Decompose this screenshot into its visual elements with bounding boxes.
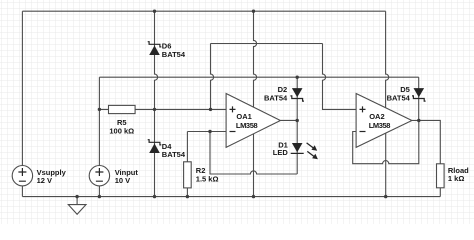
junction D4 anode on bottom rail xyxy=(153,195,156,198)
wire output to Rload xyxy=(419,120,441,163)
resistor R2 1.5k xyxy=(184,162,192,188)
svg-text:LM358: LM358 xyxy=(369,121,391,130)
resistor R5 100k xyxy=(109,105,136,113)
voltage source Vsupply xyxy=(12,166,32,186)
wire D4 column to bottom rail xyxy=(154,109,156,196)
junction Vinput negative on bottom rail xyxy=(98,195,101,198)
wire OA1 V+ supply drop (hops link and bus) xyxy=(254,11,257,107)
svg-text:R2: R2 xyxy=(196,166,206,175)
junction R2 bottom on bottom rail xyxy=(186,195,189,198)
svg-text:BAT54: BAT54 xyxy=(387,93,411,102)
svg-text:OA2: OA2 xyxy=(369,112,384,121)
svg-text:BAT54: BAT54 xyxy=(264,93,288,102)
wire R2 column to bottom rail xyxy=(186,132,188,197)
svg-text:LM358: LM358 xyxy=(236,121,258,130)
op-amp OA2 (LM358) xyxy=(356,94,412,148)
ground symbol xyxy=(68,205,86,215)
svg-text:BAT54: BAT54 xyxy=(162,50,186,59)
svg-text:BAT54: BAT54 xyxy=(162,150,186,159)
voltage source Vinput xyxy=(89,166,109,186)
wire B top link between inputs xyxy=(211,43,323,45)
wire D5 column down to OA2 output xyxy=(418,77,420,120)
svg-text:OA1: OA1 xyxy=(236,112,251,121)
wire drop from link to OA1 plus node (hops bus) xyxy=(211,44,214,110)
wire D1 LED column xyxy=(296,120,298,174)
wire drop from link to OA2 plus input (hops bus) xyxy=(323,44,357,110)
wire OA2 feedback loop (hops V- drop) xyxy=(353,120,419,163)
svg-text:LED: LED xyxy=(273,148,289,157)
junction OA1 inverting input / feedback xyxy=(208,130,211,133)
junction OA1 output node xyxy=(296,119,299,122)
junction OA1 V- on bottom rail xyxy=(252,195,255,198)
junction OA2 output node xyxy=(417,119,420,122)
diode D1 LED xyxy=(291,143,304,153)
diode D5 BAT54 xyxy=(412,88,426,101)
LED arrows xyxy=(307,143,318,159)
wire OA2 V- to bottom rail xyxy=(385,133,387,197)
svg-text:10 V: 10 V xyxy=(115,176,130,185)
svg-text:100 kΩ: 100 kΩ xyxy=(109,127,134,136)
wire bottom rail xyxy=(22,196,440,198)
svg-text:R5: R5 xyxy=(117,118,127,127)
diode D4 BAT54 xyxy=(148,140,162,153)
resistor Rload 1k xyxy=(437,164,445,188)
junction D6 cathode on V+ rail xyxy=(153,10,156,13)
wire R5 row to OA1 plus input xyxy=(99,108,226,110)
wire left column (Vsupply to top rail) xyxy=(21,11,23,165)
junction D2 anode on input bus xyxy=(296,76,299,79)
wire top rail xyxy=(22,10,385,12)
junction node Vinput / R5 left xyxy=(98,108,101,111)
junction node A (R5 right, D6/D4) xyxy=(153,108,156,111)
wire OA2 V+ supply drop (hops bus) xyxy=(386,11,389,108)
junction OA1 non-inverting input xyxy=(209,108,212,111)
junction OA2 V- on bottom rail xyxy=(384,195,387,198)
junction OA1 V+ supply on top rail xyxy=(252,10,255,13)
wire D6/D4 column (hops bus) xyxy=(155,11,158,109)
wire OA2 output to junction xyxy=(412,119,419,121)
svg-text:12 V: 12 V xyxy=(37,176,52,185)
svg-text:1 kΩ: 1 kΩ xyxy=(448,174,464,183)
wire D2 column xyxy=(296,77,298,120)
wire input bus (horizontal, y=77) xyxy=(99,76,418,78)
junction ground on bottom rail xyxy=(75,195,78,198)
svg-text:1.5 kΩ: 1.5 kΩ xyxy=(196,175,219,184)
wire OA1 inverting input row xyxy=(187,131,226,133)
diode D6 BAT54 xyxy=(148,42,162,55)
diode D2 BAT54 xyxy=(290,88,304,101)
wire Vsupply bottom lead xyxy=(21,186,23,197)
wire Vinput bottom lead xyxy=(98,186,100,197)
wire OA1 V- to bottom rail xyxy=(253,134,255,197)
wire OA1 feedback (hops V- drop) xyxy=(210,132,297,175)
op-amp OA1 (LM358) xyxy=(226,94,280,148)
wire ground stub xyxy=(76,197,78,205)
wire Rload bottom lead xyxy=(439,188,441,197)
wire Vinput column up to node row xyxy=(98,77,100,165)
wire OA1 output xyxy=(281,119,298,121)
